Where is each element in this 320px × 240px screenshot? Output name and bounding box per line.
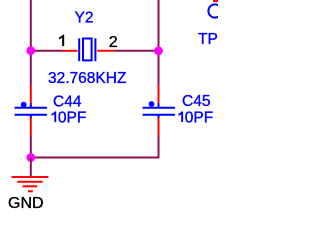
svg-text:0PF: 0PF (58, 109, 86, 126)
capacitor C45 (143, 85, 176, 136)
pin top (red) (158, 85, 160, 104)
ground bar 2 (17, 181, 42, 183)
crystal Y2 pin 2 (red) (97, 50, 114, 52)
plate bottom (15, 114, 48, 116)
svg-text:32.768KHZ: 32.768KHZ (48, 70, 126, 87)
value 10PF (179, 112, 183, 122)
wire: crystal left segment (31, 50, 62, 52)
svg-text:0PF: 0PF (185, 109, 213, 126)
ground symbol stem (30, 158, 32, 177)
svg-text:GND: GND (8, 195, 44, 212)
wire: right vertical from top to C45 (158, 0, 160, 85)
pin-1 dot (21, 102, 27, 108)
wire: C45 bottom to corner (158, 136, 160, 159)
ground bar 3 (23, 185, 38, 187)
ground bar 1 (12, 176, 49, 178)
svg-text:Y2: Y2 (75, 10, 94, 27)
blue stub top (158, 103, 160, 108)
plate top (143, 107, 176, 109)
blue stub top (30, 103, 32, 108)
wire: crystal right segment (115, 50, 159, 52)
test point TP circle (208, 4, 221, 17)
blue stub bottom (158, 114, 160, 118)
junction node: crystal pin2 / C45 (154, 46, 163, 55)
plate top (15, 107, 48, 109)
value 10PF (52, 112, 56, 122)
svg-text:C45: C45 (182, 93, 210, 110)
blue stub bottom (30, 114, 32, 118)
ground bar 4 (28, 190, 33, 192)
junction node: crystal pin1 / C44 (26, 46, 35, 55)
pin-1 dot (149, 101, 155, 107)
pin bottom (red) (158, 118, 160, 136)
wire: bottom horizontal (31, 157, 159, 159)
crystal Y2 pin 1 (red) (62, 50, 78, 52)
wire: left vertical from top to C44 (30, 0, 32, 85)
pin top (red) (30, 85, 32, 104)
crystal Y2 body (79, 38, 95, 61)
test point red stub (213, 0, 218, 2)
svg-text:C44: C44 (53, 93, 82, 110)
junction node: ground net (26, 153, 35, 162)
pin bottom (red) (30, 118, 32, 136)
pin number 1 (59, 35, 64, 46)
wire: C44 bottom to ground node (30, 136, 32, 158)
capacitor C44 (15, 85, 48, 136)
svg-text:TP: TP (198, 31, 218, 48)
plate bottom (143, 114, 176, 116)
svg-text:2: 2 (109, 34, 118, 51)
